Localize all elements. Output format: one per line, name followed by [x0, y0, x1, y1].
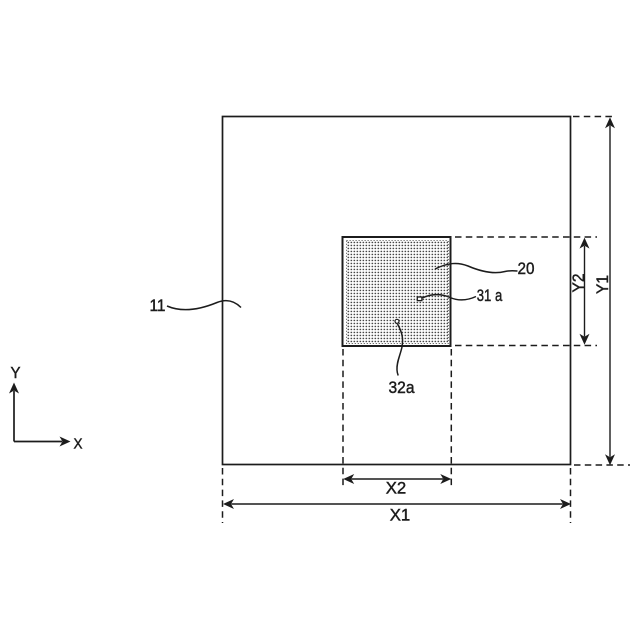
dashed extension below bottom-right corner of square 11: [570, 468, 572, 523]
arrowhead Y2 top: [580, 238, 590, 249]
svg-text:32a: 32a: [389, 378, 415, 397]
svg-text:20: 20: [518, 259, 535, 278]
dimension line Y1: [609, 126, 611, 457]
leader for label 20: [435, 263, 518, 272]
marker 32a (small open circle inside region 20): [395, 319, 399, 323]
arrowhead X1 left: [223, 499, 234, 509]
arrowhead X2 left: [343, 474, 354, 484]
coordinate axis X: [14, 441, 62, 443]
dimension line X2: [352, 478, 444, 480]
region 20 stippled fill: [347, 241, 449, 344]
leader for label 11: [167, 301, 241, 310]
arrowhead axis X: [60, 437, 71, 447]
svg-text:X: X: [74, 436, 83, 453]
svg-text:Y1: Y1: [593, 275, 612, 294]
svg-text:11: 11: [150, 296, 166, 315]
dashed guide right of top edge of region 20: [455, 236, 597, 238]
arrowhead Y2 bottom: [580, 334, 590, 345]
dashed guide below right edge of region 20: [450, 349, 452, 488]
dashed extension below bottom-left corner of square 11: [222, 468, 224, 523]
svg-text:Y2: Y2: [569, 274, 588, 293]
arrowhead X2 right: [440, 474, 451, 484]
marker 31a (small open square inside region 20): [417, 297, 422, 301]
arrowhead axis Y: [9, 383, 19, 394]
dimension line Y2: [584, 246, 586, 337]
arrowhead X1 right: [560, 499, 571, 509]
dashed extension right of top-right corner of square 11: [573, 116, 613, 118]
svg-text:Y: Y: [11, 365, 21, 382]
svg-text:31 a: 31 a: [477, 286, 503, 305]
dimension line X1: [231, 503, 562, 505]
region 20 outline (inner square): [343, 237, 451, 346]
leader for label 31a: [423, 295, 477, 300]
arrowhead Y1 bottom: [605, 454, 615, 465]
dashed extension right of bottom-right corner of square 11: [574, 464, 630, 466]
dashed guide below left edge of region 20: [342, 349, 344, 488]
substrate 11 outline (large square): [223, 117, 571, 465]
arrowhead Y1 top: [605, 117, 615, 128]
coordinate axis Y: [13, 391, 15, 442]
leader for label 32a: [397, 324, 403, 376]
svg-text:X2: X2: [386, 479, 407, 498]
svg-text:X1: X1: [390, 506, 411, 525]
dashed guide right of bottom edge of region 20: [455, 345, 597, 347]
